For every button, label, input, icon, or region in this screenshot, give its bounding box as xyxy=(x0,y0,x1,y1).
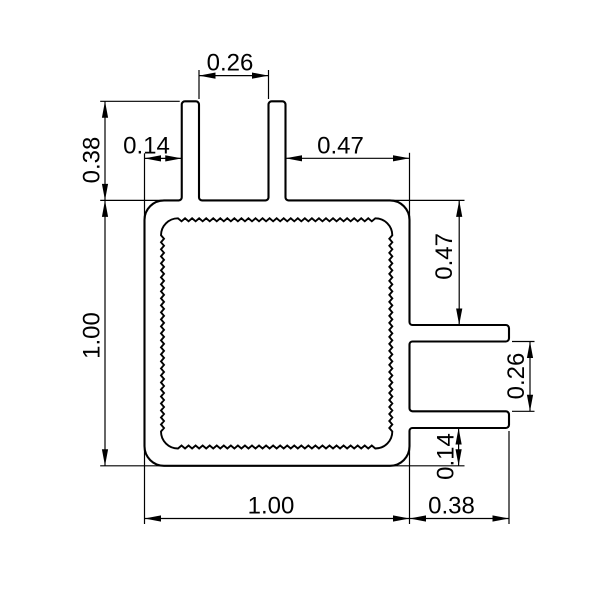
dim 0.47 top arrows xyxy=(286,155,303,161)
svg-text:0.38: 0.38 xyxy=(78,137,105,184)
dim 0.38 bottom arrows xyxy=(410,515,427,521)
svg-text:1.00: 1.00 xyxy=(248,492,295,519)
dim 1.00 left extension line xyxy=(100,465,164,467)
inner knurled bore outline xyxy=(161,218,392,448)
dim 0.26 right arrows xyxy=(527,342,533,359)
dim 0.14 top arrows xyxy=(145,155,162,161)
dim 0.26 top dimension line xyxy=(199,75,269,77)
dim 0.47 right dimension line xyxy=(458,200,460,325)
svg-text:0.14: 0.14 xyxy=(123,132,170,159)
dim 0.26 top extension lines xyxy=(198,70,200,99)
dim 0.47 right arrows xyxy=(456,200,462,217)
dim 0.47 top dimension line xyxy=(286,157,410,159)
svg-text:1.00: 1.00 xyxy=(78,312,105,359)
dim 0.14 right extension line xyxy=(390,465,465,467)
dim 0.38 bottom extension line xyxy=(508,431,510,524)
dim 0.38 left arrows xyxy=(102,101,108,118)
dim 0.26 right extension lines xyxy=(512,341,535,343)
svg-text:0.26: 0.26 xyxy=(207,49,254,76)
dim 0.47 top extension line xyxy=(409,153,411,222)
dim 1.00 bottom dimension line xyxy=(145,518,410,520)
dim 0.26 top arrows xyxy=(199,73,216,79)
dim 0.38 left extension lines xyxy=(100,100,180,102)
dim 0.47 right extension line xyxy=(390,199,465,201)
dim 1.00 bottom arrows xyxy=(145,515,162,521)
dim 0.26 right dimension line xyxy=(529,342,531,412)
dim 0.14 right dimension line xyxy=(458,428,460,466)
dim 0.38 left dimension line xyxy=(104,101,106,200)
dim 0.38 bottom dimension line xyxy=(410,518,510,520)
svg-text:0.38: 0.38 xyxy=(428,492,475,519)
svg-text:0.26: 0.26 xyxy=(503,353,530,400)
svg-text:0.47: 0.47 xyxy=(431,233,458,280)
dim 0.14 top extension line xyxy=(144,153,146,222)
svg-text:0.47: 0.47 xyxy=(317,132,364,159)
dim 0.14 top dimension line xyxy=(145,157,182,159)
svg-text:0.14: 0.14 xyxy=(432,433,459,480)
extrusion profile outer outline xyxy=(145,101,510,466)
dim 1.00 left arrows xyxy=(102,200,108,217)
dim 1.00 left dimension line xyxy=(104,200,106,465)
dim 1.00 bottom extension lines xyxy=(144,447,146,524)
dim 0.14 right arrows xyxy=(456,428,462,445)
